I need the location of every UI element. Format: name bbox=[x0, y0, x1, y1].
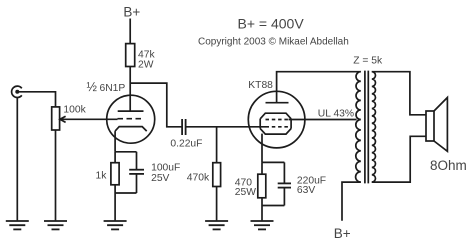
wire: cathode node to R3 bbox=[114, 152, 116, 163]
wire: R3 bottom to ground bbox=[114, 185, 116, 221]
resistor R5 470 25W bbox=[258, 174, 266, 198]
wire: B+ to R2 top bbox=[129, 19, 131, 44]
V1 plate bar bbox=[118, 110, 144, 112]
wire: V2 cathode down bbox=[261, 134, 263, 163]
ground (V1 cathode) bbox=[104, 221, 127, 229]
ground (V2 cathode) bbox=[251, 221, 274, 229]
V1 grid (dashed) bbox=[118, 118, 142, 120]
wire: bottom bar bbox=[262, 205, 284, 207]
svg-text:100uF: 100uF bbox=[151, 162, 180, 173]
svg-text:63V: 63V bbox=[297, 185, 315, 196]
V2 control grid g1 (dashed) bbox=[266, 126, 289, 128]
wire: R5 bottom to ground bbox=[261, 198, 263, 221]
svg-text:Copyright 2003 © Mikael Abdell: Copyright 2003 © Mikael Abdellah bbox=[198, 36, 349, 47]
V2 screen grid g2 (dashed) bbox=[266, 119, 289, 121]
triode V1 envelope bbox=[107, 95, 155, 143]
wire: RCA shell to ground bbox=[16, 98, 18, 221]
wire: V1 cathode down bbox=[114, 131, 116, 152]
transformer T1 core bbox=[365, 71, 368, 184]
svg-text:B+ = 400V: B+ = 400V bbox=[238, 16, 305, 32]
label 470 25W bbox=[235, 177, 256, 198]
label 220uF 63V bbox=[297, 175, 326, 196]
svg-text:25V: 25V bbox=[151, 173, 169, 184]
V2 beam plate top bracket bbox=[260, 113, 291, 119]
wire: cathode node top bar bbox=[262, 161, 284, 163]
ground (pot) bbox=[44, 221, 67, 229]
transformer T1 secondary winding bbox=[372, 72, 376, 182]
wire: cap C1 legs bbox=[136, 152, 138, 193]
V2 beam plate sides bbox=[260, 119, 291, 129]
svg-text:B+: B+ bbox=[123, 5, 140, 20]
V2 plate bar bbox=[266, 102, 289, 104]
V2 cathode cup bbox=[260, 129, 291, 135]
wire: cathode to R5 bbox=[261, 162, 263, 174]
wire: R2 bottom to V1 plate bbox=[129, 67, 131, 112]
svg-text:KT88: KT88 bbox=[248, 80, 273, 91]
svg-text:100k: 100k bbox=[63, 104, 86, 115]
wire: V2 plate to transformer primary top bbox=[277, 72, 361, 103]
wire: g2 to UL tap on primary bbox=[289, 119, 357, 121]
label 47k 2W bbox=[138, 50, 155, 71]
resistor R3 1k bbox=[111, 163, 119, 185]
svg-text:B+: B+ bbox=[334, 226, 351, 241]
wire: primary bottom to B+ bbox=[342, 182, 361, 221]
svg-text:6N1P: 6N1P bbox=[100, 83, 126, 94]
svg-text:470k: 470k bbox=[187, 172, 210, 183]
wire: grid node down to R4 bbox=[216, 127, 218, 163]
wire: plate node branch to coupling cap bbox=[130, 83, 181, 127]
wire: RCA pin to pot top bbox=[17, 92, 55, 107]
svg-text:½: ½ bbox=[87, 80, 98, 94]
transformer T1 primary winding bbox=[356, 72, 361, 182]
svg-text:UL 43%: UL 43% bbox=[318, 108, 354, 119]
capacitor C1 100uF bbox=[129, 170, 144, 174]
wire: C2 to V2 grid g1 bbox=[186, 126, 266, 128]
ground (R4) bbox=[205, 221, 228, 229]
wire: bottom bar bbox=[115, 192, 136, 194]
wire: secondary top to speaker + bbox=[372, 72, 426, 115]
svg-text:0.22uF: 0.22uF bbox=[170, 139, 202, 150]
svg-text:8Ohm: 8Ohm bbox=[430, 158, 467, 173]
ground (RCA shell) bbox=[6, 221, 29, 229]
wire: pot bottom to ground bbox=[55, 130, 57, 220]
wire: speaker - to secondary bottom bbox=[372, 136, 426, 182]
potentiometer VR1 100k bbox=[52, 107, 60, 130]
capacitor C2 0.22uF bbox=[182, 119, 186, 135]
svg-text:25W: 25W bbox=[235, 187, 256, 198]
wire: cathode node top bar bbox=[115, 151, 136, 153]
V1 cathode bbox=[115, 127, 147, 132]
resistor R4 470k bbox=[213, 163, 221, 187]
wire: R4 bottom to ground bbox=[216, 187, 218, 221]
pentode V2 envelope bbox=[248, 91, 305, 148]
svg-text:1k: 1k bbox=[96, 171, 108, 182]
RCA input jack J1 bbox=[12, 86, 22, 97]
wire: C3 legs bbox=[283, 162, 285, 205]
capacitor C3 220uF bbox=[278, 183, 291, 187]
speaker LS1 body bbox=[426, 111, 434, 141]
speaker LS1 cone bbox=[434, 98, 447, 152]
pot wiper arrow + wire to V1 grid bbox=[60, 116, 118, 122]
svg-text:2W: 2W bbox=[138, 59, 154, 70]
label 100uF 25V bbox=[151, 162, 180, 183]
svg-text:Z = 5k: Z = 5k bbox=[353, 56, 383, 67]
resistor R2 47k bbox=[126, 44, 135, 67]
